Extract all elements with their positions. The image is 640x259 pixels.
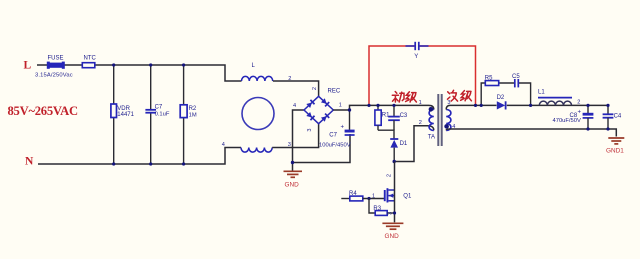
junction dot bridge minus: [291, 161, 294, 164]
label 次级 secondary char 次: [448, 90, 458, 101]
pin 2 transformer: [419, 120, 422, 126]
varistor VDR lead: [113, 65, 115, 164]
pin 2 bridge: [312, 87, 318, 90]
svg-text:Y: Y: [414, 54, 418, 60]
svg-text:FUSE: FUSE: [48, 55, 64, 61]
svg-text:D1: D1: [400, 141, 408, 147]
diode D2 output rectifier: [497, 95, 506, 110]
pin 2 choke: [288, 76, 291, 82]
thermistor NTC: [82, 56, 96, 68]
pin 4 choke: [222, 142, 225, 148]
label 初级 primary char 初 (drawn strokes): [392, 92, 404, 103]
svg-text:2: 2: [387, 174, 393, 177]
svg-text:1: 1: [339, 102, 342, 108]
pin 2 mosfet drain label: [387, 174, 393, 177]
svg-text:100uF/450V: 100uF/450V: [319, 143, 351, 149]
svg-text:2: 2: [419, 120, 422, 126]
choke core circle: [242, 98, 274, 130]
transistor Q1 mosfet: [384, 162, 412, 223]
bridge diode bottom-left: [306, 112, 314, 120]
svg-text:2: 2: [312, 87, 318, 90]
svg-text:VDR: VDR: [117, 106, 130, 112]
capacitor C4: [603, 105, 622, 129]
svg-text:1: 1: [419, 100, 422, 106]
pin 3 transformer: [447, 100, 450, 106]
pin 4 transformer: [452, 124, 455, 130]
svg-text:0.1uF: 0.1uF: [155, 111, 170, 117]
ground primary GND: [284, 163, 303, 189]
capacitor C7 100uF/450V bulk: [319, 110, 355, 149]
capacitor C7 0.1uF lead: [150, 65, 152, 164]
wire secondary bus: [446, 105, 496, 109]
label 85V~265VAC: [8, 104, 78, 118]
wire choke pin3 to bridge bottom: [272, 124, 318, 148]
svg-text:R3: R3: [373, 206, 381, 212]
pin 3 bridge: [307, 129, 313, 132]
svg-text:Q1: Q1: [403, 194, 412, 200]
svg-text:1M: 1M: [189, 112, 197, 118]
junction dot source R3: [393, 211, 396, 214]
resistor R5: [485, 76, 499, 86]
choke top winding: [241, 76, 272, 81]
svg-text:R4: R4: [349, 191, 357, 197]
svg-text:R5: R5: [485, 76, 493, 82]
junction dots secondary: [474, 104, 610, 131]
resistor R3: [373, 206, 394, 215]
junction dot drain node: [393, 160, 396, 163]
svg-text:C3: C3: [400, 113, 408, 119]
wire secondary ground rail: [446, 129, 616, 137]
svg-text:N: N: [25, 156, 34, 168]
junction dots primary bus: [348, 104, 396, 112]
svg-text:2: 2: [577, 100, 580, 106]
svg-text:NTC: NTC: [84, 56, 97, 62]
inductor L common-mode choke label: [252, 63, 256, 69]
capacitor C7 0.1uF: [145, 105, 169, 118]
wire main bus primary: [333, 105, 434, 110]
ground GND under Q1: [382, 223, 403, 240]
svg-text:D2: D2: [497, 95, 505, 101]
svg-text:C5: C5: [512, 74, 520, 80]
svg-text:+: +: [341, 125, 345, 131]
bridge diode top-right: [321, 98, 329, 106]
label 初级 char 级: [406, 92, 417, 102]
label 次级 char 级: [461, 91, 472, 101]
wire N rail: [38, 148, 241, 165]
resistor R1 snubber: [375, 105, 390, 130]
svg-text:470uF/50V: 470uF/50V: [553, 118, 581, 124]
svg-text:3: 3: [307, 129, 313, 132]
capacitor C8 470uF/50V: [553, 105, 594, 129]
capacitor C3 snubber: [388, 105, 408, 130]
svg-text:GND: GND: [285, 182, 300, 189]
svg-text:GND1: GND1: [606, 147, 624, 154]
wire R1 C3 junction to D1: [378, 130, 394, 138]
label TA: [428, 135, 435, 141]
junction dots input rails: [112, 63, 185, 165]
svg-text:R2: R2: [189, 106, 197, 112]
resistor R4 gate: [341, 191, 384, 201]
transformer core bars: [437, 94, 442, 146]
junction dot gate: [367, 197, 370, 200]
capacitor C5: [512, 74, 520, 87]
inductor L1: [538, 90, 572, 106]
svg-text:85V~265VAC: 85V~265VAC: [8, 104, 78, 118]
bridge diode top-left: [306, 100, 314, 108]
svg-text:C7: C7: [155, 105, 163, 111]
pin 4 bridge: [293, 103, 296, 109]
transformer TA secondary winding: [444, 110, 451, 131]
wire drain node to transformer pin2: [394, 126, 434, 162]
varistor VDR 14471: [111, 104, 135, 118]
svg-text:C7: C7: [329, 133, 337, 139]
pin 1 transformer: [419, 100, 422, 106]
wire after D2: [507, 104, 609, 106]
pin 3 mosfet source label: [388, 212, 394, 215]
svg-text:L1: L1: [538, 90, 545, 96]
bridge rectifier REC: [304, 89, 341, 124]
svg-text:3: 3: [388, 212, 394, 215]
svg-text:14471: 14471: [117, 112, 134, 118]
svg-text:3.15A/250Vac: 3.15A/250Vac: [35, 72, 73, 78]
resistor R2 lead: [183, 65, 185, 164]
transformer TA primary winding: [429, 107, 434, 131]
pin 1 mosfet gate label: [372, 194, 375, 200]
pin 1 bridge: [339, 102, 342, 108]
resistor R2 1M: [180, 105, 197, 119]
svg-text:4: 4: [293, 103, 296, 109]
capacitor Y red loop wire: [369, 46, 476, 105]
svg-text:REC: REC: [328, 89, 341, 95]
choke bottom winding: [241, 148, 272, 153]
capacitor Y: [406, 42, 429, 60]
svg-text:C4: C4: [614, 114, 622, 120]
wire gate to R3: [369, 199, 375, 214]
wire bridge minus to ground bus: [293, 110, 351, 163]
fuse FUSE: [35, 55, 73, 78]
wire choke to bridge top: [273, 81, 319, 96]
ground GND1 secondary: [606, 138, 624, 154]
pin 2 output: [577, 100, 580, 106]
bridge diode bottom-right: [321, 114, 329, 122]
snubber loop R5 C5 wire: [481, 83, 530, 105]
svg-text:1: 1: [372, 194, 375, 200]
svg-text:+: +: [578, 110, 582, 116]
svg-text:TA: TA: [428, 135, 435, 141]
svg-text:4: 4: [222, 142, 225, 148]
diode D1 clamp: [390, 139, 408, 162]
wire L rail: [37, 65, 242, 81]
node N label: [25, 156, 34, 168]
svg-text:GND: GND: [385, 233, 400, 240]
svg-text:L: L: [24, 60, 32, 72]
pin 3 choke: [288, 142, 291, 148]
node L label: [24, 60, 32, 72]
